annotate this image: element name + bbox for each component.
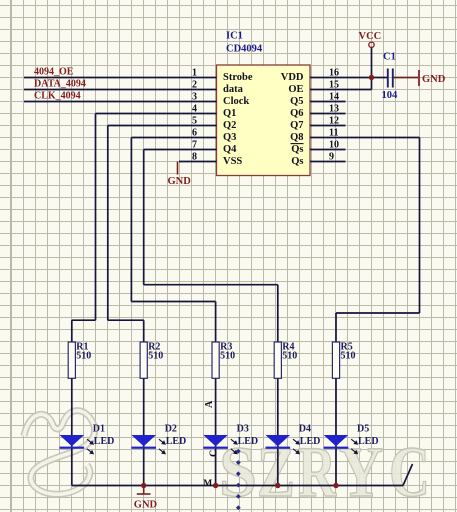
svg-text:OE: OE — [288, 84, 303, 95]
svg-text:Q1: Q1 — [223, 108, 236, 119]
svg-text:LED: LED — [238, 436, 259, 447]
svg-text:104: 104 — [382, 90, 399, 101]
svg-text:A: A — [204, 400, 215, 408]
svg-text:Q6: Q6 — [290, 108, 303, 119]
svg-text:Q5: Q5 — [290, 96, 303, 107]
svg-text:Clock: Clock — [223, 96, 249, 107]
svg-text:GND: GND — [134, 500, 158, 511]
svg-text:GND: GND — [168, 176, 192, 187]
svg-text:GND: GND — [422, 74, 446, 85]
svg-text:DATA_4094: DATA_4094 — [34, 79, 86, 90]
svg-text:Q3: Q3 — [223, 132, 236, 143]
svg-text:CLK_4094: CLK_4094 — [34, 91, 81, 102]
svg-text:Q8: Q8 — [290, 132, 303, 143]
svg-text:IC1: IC1 — [226, 31, 243, 42]
svg-text:510: 510 — [76, 351, 91, 362]
svg-text:Q4: Q4 — [223, 144, 237, 155]
svg-text:Qs: Qs — [291, 144, 303, 155]
svg-text:510: 510 — [148, 351, 163, 362]
svg-text:D1: D1 — [93, 424, 105, 435]
svg-text:D3: D3 — [237, 424, 249, 435]
svg-text:LED: LED — [358, 436, 379, 447]
svg-text:C: C — [209, 450, 220, 457]
svg-text:LED: LED — [94, 436, 115, 447]
svg-text:510: 510 — [220, 351, 235, 362]
svg-text:4094_OE: 4094_OE — [34, 67, 74, 78]
svg-text:D2: D2 — [165, 424, 177, 435]
svg-text:D5: D5 — [357, 424, 369, 435]
svg-text:C1: C1 — [383, 52, 396, 63]
svg-text:data: data — [223, 84, 244, 95]
svg-text:Q7: Q7 — [290, 120, 303, 131]
svg-text:D4: D4 — [299, 424, 311, 435]
svg-text:LED: LED — [300, 436, 321, 447]
svg-text:510: 510 — [341, 351, 356, 362]
svg-text:VCC: VCC — [359, 31, 382, 42]
svg-text:Q2: Q2 — [223, 120, 236, 131]
svg-text:VSS: VSS — [223, 156, 242, 167]
svg-text:CD4094: CD4094 — [226, 44, 263, 55]
svg-text:M: M — [203, 479, 212, 489]
svg-text:510: 510 — [282, 351, 297, 362]
svg-text:VDD: VDD — [281, 72, 304, 83]
svg-text:Strobe: Strobe — [223, 72, 253, 83]
svg-text:LED: LED — [166, 436, 187, 447]
svg-text:Qs: Qs — [291, 156, 303, 167]
